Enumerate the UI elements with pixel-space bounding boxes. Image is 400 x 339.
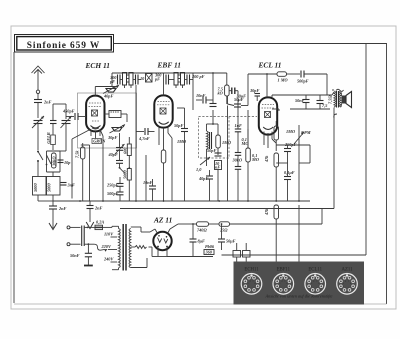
socket panel caption [264,294,332,299]
capacitor 50nF tone 2 [317,95,329,109]
svg-text:ECL11: ECL11 [308,268,322,273]
padder capacitor osc chain [50,121,57,124]
wire ECL anode row [272,92,334,111]
tube socket panel [234,262,365,305]
svg-text:250pF: 250pF [106,183,119,188]
socket label ECH11 [244,268,259,273]
svg-text:2nF: 2nF [94,206,103,211]
svg-text:7,5k: 7,5k [75,150,80,158]
oscillator coil 600 [122,137,131,168]
socket EBF11 [273,274,294,295]
svg-text:4,7nF: 4,7nF [138,136,150,141]
svg-text:10nF: 10nF [196,93,206,98]
antenna terminal [36,90,39,93]
svg-text:10p: 10p [64,160,71,165]
oscillator trimmer [60,104,72,151]
capacitor 2nF ground mid [87,201,103,222]
svg-text:50nF: 50nF [70,253,80,258]
IF transformer 1 label 300pF [109,75,117,84]
power transformer [101,224,131,271]
svg-text:50μF: 50μF [234,97,244,102]
junction dots bus [79,200,300,202]
volume potentiometer [196,155,210,172]
svg-text:ECH11: ECH11 [244,268,259,273]
tuning capacitor section2 [107,125,125,141]
tube ECL11 [259,97,277,140]
coil box GELB [46,132,56,144]
svg-text:50pF: 50pF [207,148,216,153]
capacitor IF1 left [118,75,121,85]
resistor 50kO right of EBF [246,129,259,201]
capacitor 10nF EBF bottom [143,179,156,201]
svg-text:1MO: 1MO [222,140,231,145]
shield box dashed [199,117,258,159]
svg-text:0,1μF: 0,1μF [284,170,295,175]
svg-text:pF: pF [154,77,160,82]
svg-text:7,5Ω: 7,5Ω [328,95,333,104]
socket ECH11 [241,274,262,295]
ground mains [84,265,93,267]
trimmer capacitor antenna [32,116,44,150]
svg-text:1 MO: 1 MO [278,78,288,83]
svg-text:450pF: 450pF [62,109,75,114]
capacitor 250pF bottom left [106,177,124,188]
svg-text:47k: 47k [264,155,269,163]
oscillator trimmer 3 [116,150,123,163]
wire top row to EBF [193,72,227,75]
svg-text:nF: nF [215,165,220,170]
wire B+ drop right [321,209,323,225]
svg-text:Sinfonie 659 W: Sinfonie 659 W [27,41,100,51]
wire ECL pin drops [264,139,276,148]
svg-text:50pF: 50pF [174,123,183,128]
resistor 1MO ECL grid [277,72,300,83]
svg-text:EBF 11: EBF 11 [157,61,182,70]
capacitor 70nF detector2 [210,104,217,107]
capacitor 450pF to ECH grid [53,104,86,120]
resistor ECL 47k [264,153,279,201]
svg-text:kO: kO [218,91,223,96]
svg-text:740Ω: 740Ω [197,228,207,233]
svg-text:50nF: 50nF [295,98,305,103]
capacitor 500pF feedback [297,71,327,96]
svg-text:30pF: 30pF [249,88,259,93]
svg-text:5000: 5000 [33,183,38,192]
label EBF11 [157,61,182,70]
svg-text:600: 600 [122,147,127,154]
svg-text:1,0: 1,0 [196,167,202,172]
filter capacitor 2 [218,223,236,250]
capacitor 50pF diode load [174,108,188,201]
tuning capacitor section1 [95,85,119,99]
socket label ECL11 [308,268,322,273]
wire ECL grid row [228,73,278,105]
svg-text:360: 360 [205,250,213,255]
svg-text:50μF: 50μF [226,239,236,244]
svg-text:GRÜN: GRÜN [93,138,106,143]
wire detector row [207,110,219,125]
output transformer [328,90,342,113]
filter capacitor 1 [190,223,206,256]
capacitor 0.1uF ECL [284,170,295,201]
svg-text:30pF: 30pF [107,135,117,140]
wire tone row bottom [290,109,334,209]
svg-text:240V: 240V [103,257,114,262]
svg-text:250pF: 250pF [284,142,297,147]
wire AZ anode top [170,224,192,229]
fuse Pb06 360 [204,244,215,255]
IF transformer 1 windings [123,73,134,86]
ground arrow left [49,216,57,230]
capacitor IF2 right [187,74,205,85]
wire EBF pin drops [159,133,172,201]
label GRUEN under ECH [92,137,106,144]
svg-text:EBF11: EBF11 [277,268,291,273]
wire detector drop [145,155,147,201]
svg-text:5000: 5000 [47,183,52,192]
tube ECH11 [86,96,104,137]
antenna coil 5000 [33,177,47,202]
resistor pair above panel [233,243,250,262]
svg-text:MO: MO [241,141,249,146]
capacitor 250pF ECL [284,142,297,163]
capacitor 30pF ECL [249,88,260,101]
wave switch contact [37,151,43,177]
ground arrow mid2 [86,222,94,229]
svg-text:2nF: 2nF [43,100,52,105]
potentiometer tone [294,125,311,145]
fuse 0.2A [95,220,112,230]
B+ rail resistor 1 [192,222,219,233]
svg-text:500pF: 500pF [297,79,309,84]
capacitor 30uF screen [229,88,246,99]
title box Sinfonie 659 W [15,35,114,53]
wire ECH cathode chain [72,130,90,199]
capacitor 4.7nF EBF cathode [136,128,155,141]
svg-text:1MO: 1MO [286,129,295,134]
resistor 7.5kO EBF screen [213,73,229,104]
label ECH11 [85,61,110,70]
svg-text:Ansicht von unten auf die Röhr: Ansicht von unten auf die Röhrenstifte [264,294,332,299]
socket label AZ11 [341,268,353,273]
gang frame left section [78,93,137,148]
tube EBF11 [154,95,172,134]
oscillator coil 5000b [122,169,131,202]
socket AZ11 [337,274,358,295]
main bus B [120,208,334,210]
capacitor 50nF tone 1 [295,95,310,109]
main bus A [53,200,310,202]
voltage selector arrow [94,244,108,252]
capacitor 2nF to ground [49,206,67,216]
svg-text:40pF: 40pF [103,94,113,99]
svg-text:40pF: 40pF [108,152,118,157]
svg-text:8μF: 8μF [198,239,206,244]
svg-text:5000: 5000 [122,170,127,179]
svg-text:30kO: 30kO [52,156,57,167]
svg-text:Pb06: Pb06 [205,244,215,249]
loudspeaker [336,89,352,107]
capacitor 500pF bottom left [107,186,124,201]
B+ rail from frame [222,44,367,256]
IF transformer 2 windings [174,73,185,86]
mains switch [82,226,95,247]
resistor box 10nF [215,161,222,202]
ECH anode coupling coil [105,111,128,123]
wave trap coil [146,73,153,82]
svg-text:ECH 11: ECH 11 [85,61,110,70]
oscillator loop switch [46,104,60,172]
resistor 30kO oscillator [52,153,57,168]
capacitor 50pF AVC [207,148,222,156]
capacitor 6.8nF [232,132,243,201]
mains plug terminals [67,226,81,246]
capacitor 50uF coupling [234,97,244,107]
band switch lower [119,163,131,173]
svg-text:AZ 11: AZ 11 [153,216,172,225]
phone jack hook [334,114,337,118]
capacitor 2nF antenna [34,94,52,119]
svg-text:AZ11: AZ11 [341,268,353,273]
svg-text:220V: 220V [101,244,112,249]
svg-text:3nF: 3nF [67,183,76,188]
svg-text:10nF: 10nF [143,180,153,185]
capacitor 40pF AVC bottom [198,170,213,201]
svg-text:40pF: 40pF [198,176,208,181]
socket ECL11 [305,274,326,295]
capacitor 1nF top right of EBF [235,91,249,148]
IF1 connecting wires [112,73,164,201]
wire ECL grid chain down [227,106,229,202]
transformer secondary wires [131,227,147,268]
B+ rail resistor 2 [219,222,322,233]
capacitor 3nF oscillator [61,183,76,188]
svg-text:500pF: 500pF [107,191,119,196]
schematic frame [14,44,387,305]
IF transformer 3 vertical [207,124,212,155]
wire ECL bottom rows [276,145,310,201]
wire AZ filament [141,229,213,257]
svg-text:MO: MO [251,157,259,162]
svg-text:GELB: GELB [46,132,51,144]
oscillator trimmer 2 [108,133,125,157]
svg-text:NPM: NPM [300,130,311,135]
oscillator coil 5000 [47,172,61,206]
svg-text:110V: 110V [104,232,114,237]
resistor ECL cathode 1 [274,121,295,151]
svg-text:0,2A: 0,2A [96,220,104,225]
capacitor 10pF oscillator [58,160,72,165]
socket label EBF11 [277,268,291,273]
capacitor IF1 right [136,75,146,85]
label AZ11 [153,216,172,225]
resistor ECL grid leak [227,96,229,104]
heater resistor [135,246,152,249]
svg-text:25Ω: 25Ω [219,228,228,233]
capacitor 50nF mains [70,243,92,265]
resistor 1MO detector [216,124,231,155]
capacitor 10nF detector [196,93,213,104]
resistor ECL screen lower [264,205,299,262]
svg-text:ECL 11: ECL 11 [258,61,282,70]
svg-text:2nF: 2nF [58,206,67,211]
wire ECH pin drops [100,130,103,202]
label ECL11 [258,61,282,70]
resistor EBF cathode [161,150,166,201]
antenna [32,66,45,90]
resistor 7.5k under ECH [75,143,90,201]
capacitor 300pF EBF input [154,73,169,85]
tube AZ11 [153,229,171,257]
IF2 connecting wires [164,73,194,110]
svg-text:30kO: 30kO [232,158,243,163]
wire antenna to bus [38,200,53,202]
